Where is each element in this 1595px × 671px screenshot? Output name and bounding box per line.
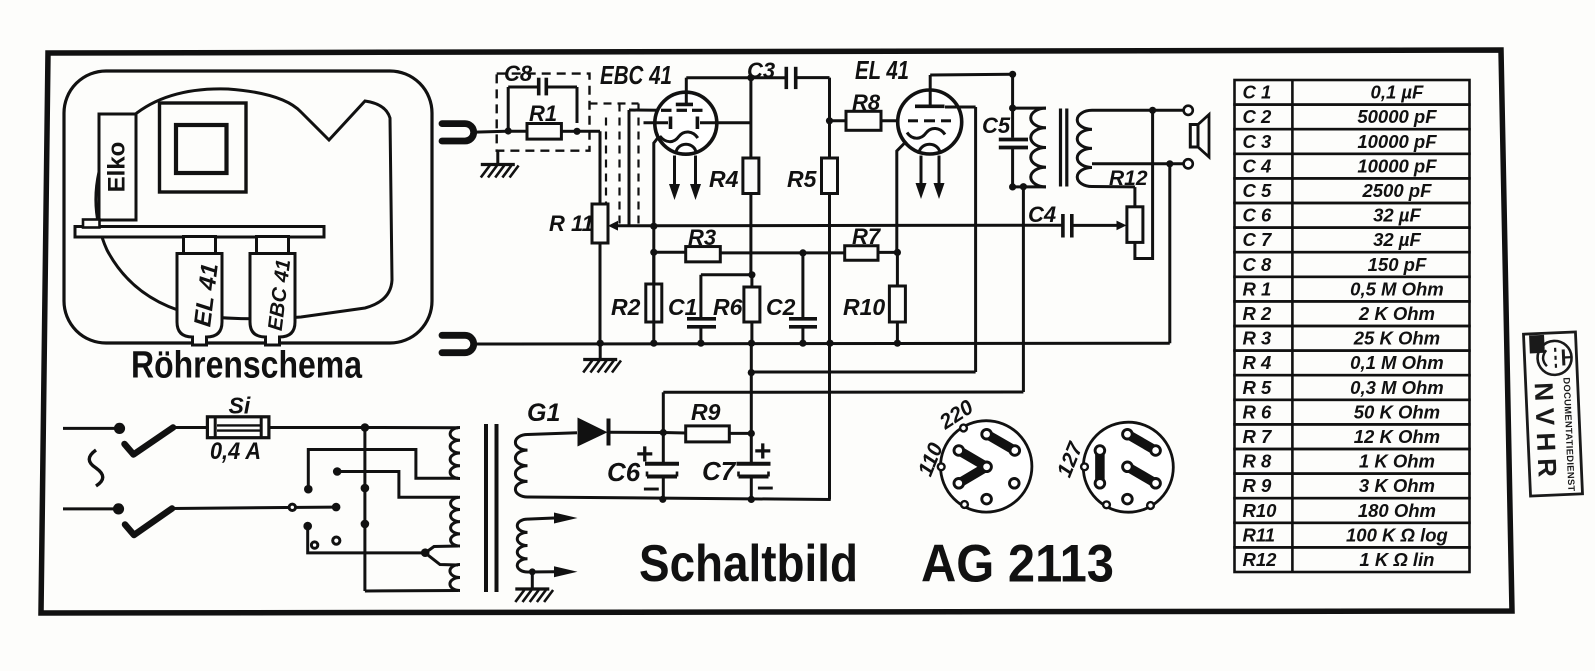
svg-text:Elko: Elko [104,142,131,193]
svg-text:Röhrenschema: Röhrenschema [131,345,363,387]
svg-text:R 3: R 3 [1243,328,1273,349]
svg-text:R7: R7 [852,224,882,249]
svg-text:R 6: R 6 [1243,401,1273,422]
svg-text:R10: R10 [1243,500,1278,521]
svg-text:Schaltbild: Schaltbild [639,535,858,593]
svg-text:R4: R4 [709,166,739,192]
svg-text:+: + [636,438,654,471]
svg-text:C 6: C 6 [1243,205,1273,226]
svg-text:R 8: R 8 [1243,451,1273,472]
svg-text:C1: C1 [668,294,697,320]
svg-text:R 1: R 1 [1243,278,1272,299]
svg-text:R2: R2 [611,294,641,320]
svg-text:3 K Ohm: 3 K Ohm [1359,475,1435,496]
svg-text:2500 pF: 2500 pF [1361,180,1432,201]
svg-text:32 µF: 32 µF [1373,205,1421,226]
svg-text:100 K Ω log: 100 K Ω log [1346,524,1448,545]
svg-text:R 7: R 7 [1243,426,1274,447]
svg-text:C2: C2 [766,294,796,320]
svg-text:R10: R10 [843,294,885,320]
svg-text:0,3 M Ohm: 0,3 M Ohm [1350,377,1444,398]
svg-text:R 11: R 11 [549,211,594,236]
svg-text:0,1 M Ohm: 0,1 M Ohm [1350,352,1444,373]
svg-text:EBC 41: EBC 41 [600,60,672,90]
svg-text:180 Ohm: 180 Ohm [1358,500,1436,521]
svg-text:C 1: C 1 [1243,82,1272,103]
svg-text:R11: R11 [1243,524,1276,545]
svg-text:R12: R12 [1243,549,1278,570]
svg-text:R 5: R 5 [1243,377,1273,398]
svg-text:1 K Ohm: 1 K Ohm [1359,451,1435,472]
svg-text:C4: C4 [1028,202,1056,227]
svg-text:NVHR: NVHR [1529,382,1563,485]
svg-text:R6: R6 [713,294,743,320]
svg-text:32 µF: 32 µF [1373,229,1421,250]
svg-text:AG 2113: AG 2113 [921,535,1114,594]
svg-text:2 K Ohm: 2 K Ohm [1358,303,1435,324]
svg-text:R5: R5 [787,166,818,192]
svg-text:0,5 M Ohm: 0,5 M Ohm [1350,278,1444,299]
svg-text:C 8: C 8 [1243,254,1273,275]
svg-text:C 3: C 3 [1243,131,1273,152]
svg-text:10000 pF: 10000 pF [1357,155,1437,176]
svg-text:R3: R3 [688,225,716,250]
svg-text:C7: C7 [702,456,737,486]
svg-text:12 K Ohm: 12 K Ohm [1354,426,1440,447]
svg-text:50 K Ohm: 50 K Ohm [1354,401,1440,422]
svg-text:0,1 µF: 0,1 µF [1371,82,1425,103]
svg-text:C 5: C 5 [1243,180,1273,201]
svg-text:10000 pF: 10000 pF [1357,131,1437,152]
svg-text:C 4: C 4 [1243,155,1272,176]
svg-text:Si: Si [229,393,251,419]
svg-text:R1: R1 [529,101,557,126]
svg-text:EL 41: EL 41 [855,55,909,85]
svg-text:C 7: C 7 [1243,229,1274,250]
svg-text:R 4: R 4 [1243,352,1272,373]
svg-text:R9: R9 [691,399,721,425]
svg-text:C5: C5 [982,113,1011,138]
svg-text:150 pF: 150 pF [1368,254,1427,275]
svg-text:1 K Ω lin: 1 K Ω lin [1359,549,1434,570]
svg-text:50000 pF: 50000 pF [1357,106,1437,127]
svg-text:C8: C8 [504,61,533,86]
svg-text:25 K Ohm: 25 K Ohm [1353,328,1440,349]
svg-text:R 2: R 2 [1243,303,1273,324]
svg-text:R 9: R 9 [1243,475,1273,496]
svg-text:0,4 A: 0,4 A [210,438,261,465]
svg-text:G1: G1 [527,399,560,427]
svg-text:C 2: C 2 [1243,106,1273,127]
